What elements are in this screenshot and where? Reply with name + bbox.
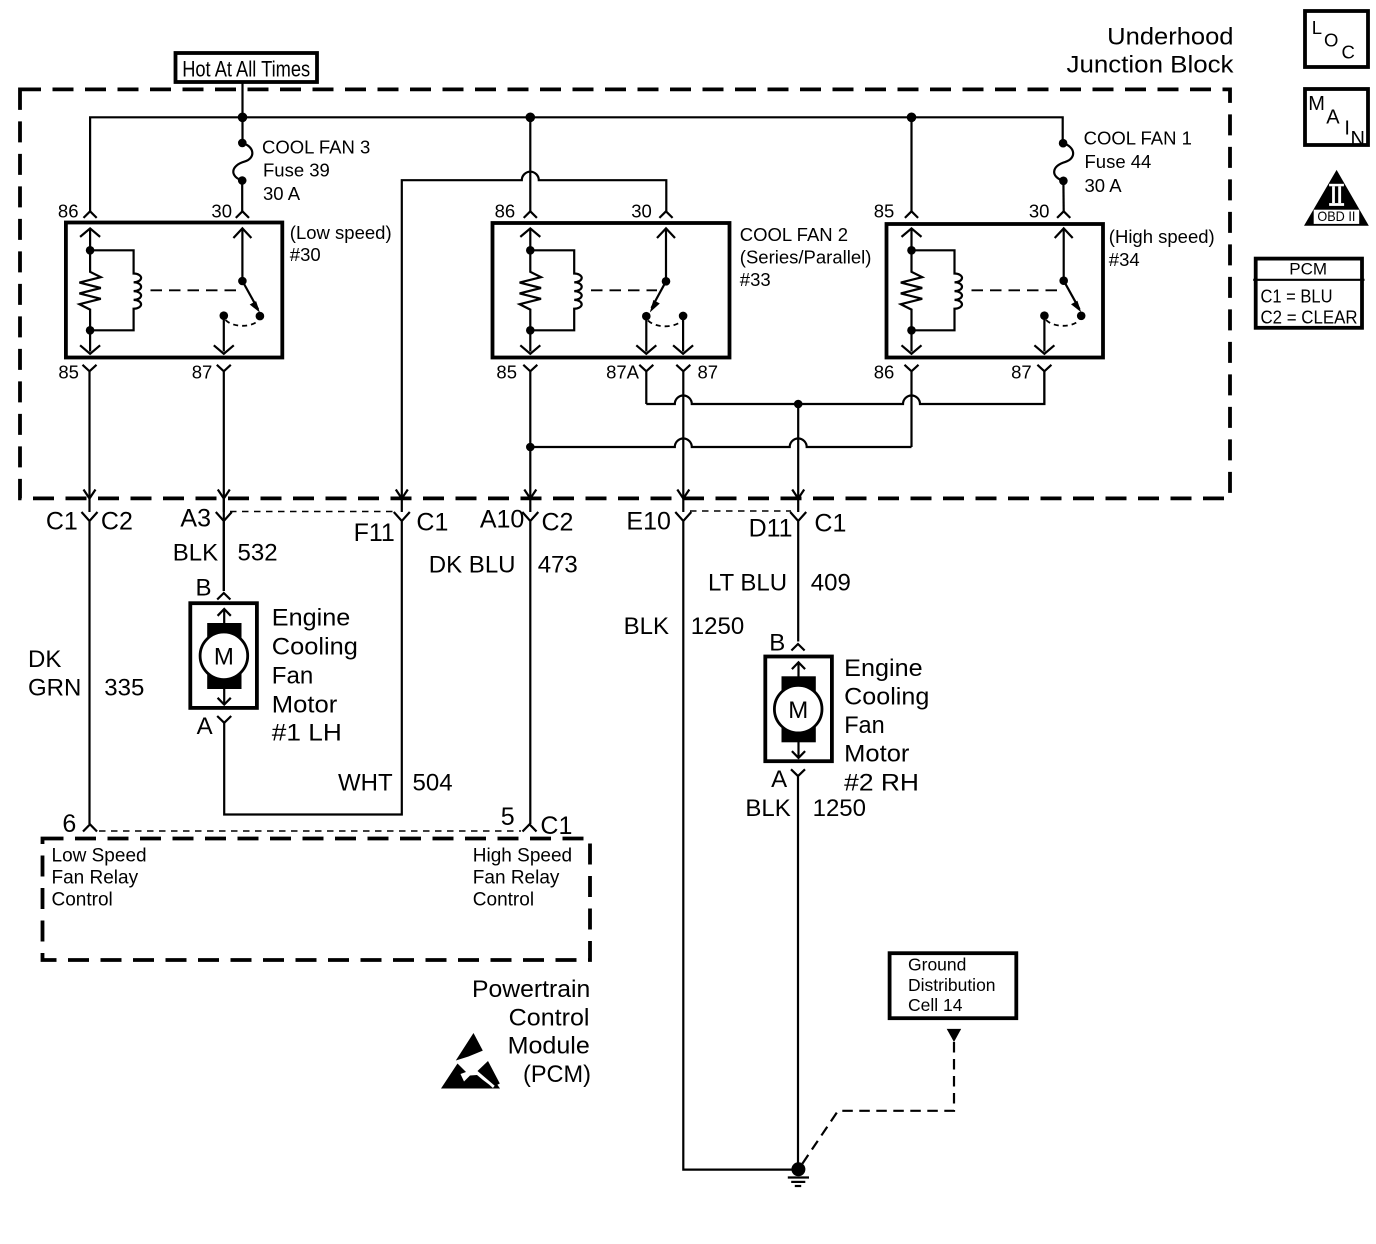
svg-text:532: 532	[238, 540, 278, 567]
svg-text:COOL FAN 2: COOL FAN 2	[740, 224, 848, 245]
svg-text:#33: #33	[740, 269, 771, 290]
svg-text:Low Speed: Low Speed	[52, 846, 147, 867]
svg-text:BLK: BLK	[745, 795, 790, 822]
svg-text:87: 87	[1011, 362, 1032, 383]
svg-text:Module: Module	[508, 1033, 590, 1060]
svg-text:Fan: Fan	[272, 663, 314, 690]
svg-text:DK: DK	[28, 646, 61, 673]
svg-text:30: 30	[211, 201, 232, 222]
svg-text:#1 LH: #1 LH	[272, 720, 342, 747]
svg-text:85: 85	[874, 201, 895, 222]
svg-text:#30: #30	[290, 244, 321, 265]
svg-text:30: 30	[631, 201, 652, 222]
svg-text:Control: Control	[509, 1005, 590, 1032]
svg-text:A3: A3	[180, 505, 211, 533]
svg-text:Powertrain: Powertrain	[472, 976, 590, 1003]
svg-text:COOL FAN 1: COOL FAN 1	[1084, 127, 1192, 148]
svg-text:86: 86	[495, 201, 516, 222]
svg-text:6: 6	[62, 810, 76, 838]
svg-text:N: N	[1351, 128, 1365, 150]
svg-text:409: 409	[811, 570, 851, 597]
svg-text:A: A	[197, 713, 213, 740]
svg-text:I: I	[1344, 118, 1350, 140]
svg-text:C2 = CLEAR: C2 = CLEAR	[1261, 307, 1358, 327]
svg-text:Motor: Motor	[844, 741, 909, 768]
svg-text:87: 87	[192, 362, 213, 383]
svg-text:Cell 14: Cell 14	[908, 995, 963, 1015]
svg-text:D11: D11	[749, 515, 793, 543]
svg-text:85: 85	[58, 362, 79, 383]
svg-text:Cooling: Cooling	[272, 634, 358, 661]
svg-text:30 A: 30 A	[263, 183, 301, 204]
svg-text:M: M	[214, 644, 234, 671]
svg-text:#2 RH: #2 RH	[844, 769, 919, 796]
svg-text:O: O	[1324, 30, 1338, 51]
svg-text:1250: 1250	[691, 613, 744, 640]
svg-text:WHT: WHT	[338, 770, 393, 797]
svg-text:C1 = BLU: C1 = BLU	[1261, 286, 1333, 306]
svg-text:M: M	[788, 697, 808, 724]
svg-text:High Speed: High Speed	[473, 846, 572, 867]
svg-text:A: A	[1326, 107, 1340, 129]
svg-text:Control: Control	[52, 890, 113, 911]
svg-text:C1: C1	[540, 812, 572, 840]
svg-text:30: 30	[1029, 201, 1050, 222]
svg-text:GRN: GRN	[28, 674, 81, 701]
svg-text:Engine: Engine	[272, 605, 351, 632]
svg-text:Engine: Engine	[844, 655, 922, 682]
svg-text:Fuse 44: Fuse 44	[1085, 151, 1152, 172]
svg-text:C1: C1	[46, 508, 78, 536]
svg-text:C1: C1	[814, 510, 846, 538]
svg-text:Underhood: Underhood	[1107, 23, 1233, 50]
svg-text:#34: #34	[1109, 249, 1140, 270]
svg-text:(Series/Parallel): (Series/Parallel)	[740, 247, 872, 268]
svg-text:Fan Relay: Fan Relay	[473, 868, 560, 889]
svg-text:C1: C1	[416, 509, 448, 537]
svg-text:473: 473	[538, 552, 578, 579]
svg-text:BLK: BLK	[173, 540, 218, 567]
svg-text:87: 87	[698, 362, 719, 383]
svg-text:OBD II: OBD II	[1317, 208, 1355, 224]
svg-text:Ground: Ground	[908, 955, 966, 975]
svg-text:LT BLU: LT BLU	[708, 570, 787, 597]
svg-text:Cooling: Cooling	[844, 684, 929, 711]
svg-text:C2: C2	[542, 509, 574, 537]
svg-text:Fan: Fan	[844, 712, 885, 739]
svg-text:(Low speed): (Low speed)	[290, 222, 392, 243]
svg-text:Control: Control	[473, 890, 534, 911]
svg-text:87A: 87A	[606, 362, 640, 383]
svg-text:Fuse 39: Fuse 39	[263, 160, 330, 181]
svg-text:Hot At All Times: Hot At All Times	[182, 57, 310, 82]
svg-text:5: 5	[501, 803, 515, 831]
svg-text:85: 85	[496, 362, 517, 383]
svg-text:A: A	[771, 766, 787, 793]
svg-text:C: C	[1342, 42, 1355, 63]
svg-text:COOL FAN 3: COOL FAN 3	[262, 136, 370, 157]
svg-text:B: B	[769, 630, 785, 657]
svg-text:(High speed): (High speed)	[1109, 226, 1215, 247]
svg-text:L: L	[1312, 17, 1322, 38]
svg-text:E10: E10	[626, 508, 670, 536]
svg-text:M: M	[1308, 93, 1325, 115]
svg-text:B: B	[195, 575, 211, 602]
svg-text:Distribution: Distribution	[908, 975, 996, 995]
svg-text:Motor: Motor	[272, 692, 338, 719]
svg-text:30 A: 30 A	[1085, 175, 1123, 196]
svg-text:A10: A10	[480, 506, 524, 534]
svg-text:335: 335	[104, 674, 144, 701]
svg-text:86: 86	[58, 201, 79, 222]
svg-text:1250: 1250	[813, 795, 866, 822]
svg-text:PCM: PCM	[1289, 259, 1327, 278]
svg-text:DK BLU: DK BLU	[429, 552, 516, 579]
svg-text:504: 504	[413, 770, 453, 797]
svg-text:(PCM): (PCM)	[523, 1061, 591, 1088]
svg-text:86: 86	[874, 362, 895, 383]
svg-text:Junction Block: Junction Block	[1067, 51, 1235, 78]
svg-text:Fan Relay: Fan Relay	[52, 868, 139, 889]
svg-text:C2: C2	[101, 508, 133, 536]
svg-text:BLK: BLK	[624, 613, 669, 640]
svg-text:F11: F11	[354, 519, 395, 547]
